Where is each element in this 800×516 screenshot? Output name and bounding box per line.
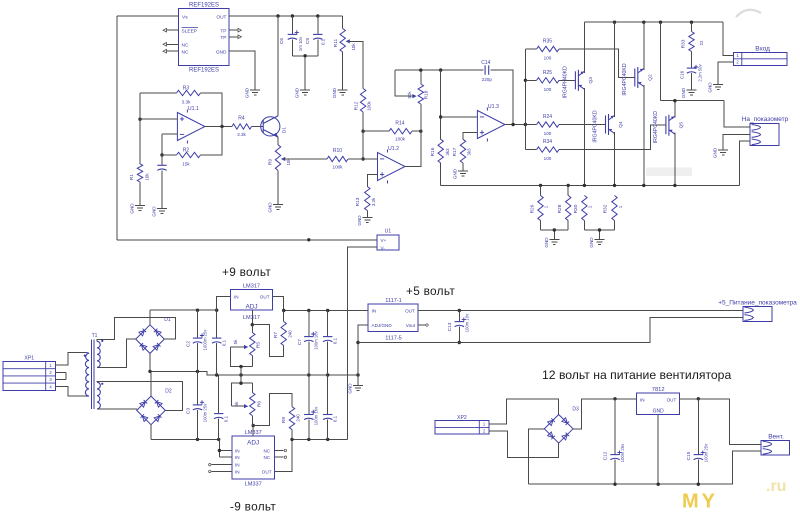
connector XP1 mains (3, 362, 55, 391)
svg-text:5k: 5k (233, 339, 238, 344)
svg-text:IN: IN (234, 294, 239, 299)
svg-text:0.1: 0.1 (221, 339, 226, 346)
resistor R12 100k (360, 89, 365, 113)
resistor R4 3.3k (232, 124, 252, 129)
wire R35 to Q2 gate (559, 49, 635, 78)
IC REF192ES U-ref (179, 8, 229, 65)
wire U1.1 + input (140, 118, 177, 120)
capacitor C2 1000m 25v (197, 310, 199, 338)
wire XP1 pin4 to primary (55, 387, 86, 396)
svg-text:R28: R28 (557, 204, 563, 213)
svg-text:GND: GND (348, 383, 353, 394)
capacitor C13 100m 10v (458, 311, 460, 322)
svg-text:GND: GND (713, 147, 718, 158)
resistor R13 3.3k (365, 187, 370, 211)
svg-text:ADJ: ADJ (245, 304, 257, 311)
wire R9 bottom to ground (277, 170, 279, 204)
svg-text:OUT: OUT (667, 397, 677, 402)
svg-text:Q5: Q5 (678, 122, 684, 129)
svg-text:IN: IN (235, 448, 240, 453)
resistor R33 22 snubber (691, 22, 693, 31)
wire Q5 collector branch (661, 22, 725, 118)
wire R25 to Q3 gate (559, 79, 575, 81)
capacitor 0.1 after C3 (218, 375, 220, 414)
svg-text:REF192ES: REF192ES (189, 67, 219, 73)
capacitor 0.1 beside C8 (327, 375, 329, 415)
svg-text:R30: R30 (573, 204, 579, 213)
svg-text:R26: R26 (529, 204, 535, 213)
pin stub TP2 (229, 36, 238, 38)
svg-text:R18: R18 (423, 90, 429, 99)
svg-text:GND: GND (332, 87, 337, 98)
svg-text:IN: IN (235, 463, 240, 468)
svg-text:Q3: Q3 (588, 77, 594, 84)
svg-text:D2: D2 (165, 388, 172, 394)
junction R10/U1.2 minus (361, 157, 364, 160)
svg-text:IN: IN (372, 309, 377, 314)
wire XP2 pin1 to D3 top (489, 399, 559, 424)
wire LM317 OUT to +9 rail (273, 296, 284, 310)
svg-text:1117-1: 1117-1 (385, 298, 402, 304)
svg-text:100m 25v: 100m 25v (202, 403, 207, 422)
ground Вход (713, 85, 723, 90)
junction Q5 collector branch (659, 21, 662, 24)
junction R5/R6 link (239, 373, 242, 376)
IGBT Q3 IRG4PH40KD (574, 71, 576, 89)
wire R11 wiper to R12 (348, 41, 363, 88)
svg-text:100k: 100k (367, 100, 372, 110)
svg-text:Q2: Q2 (647, 74, 653, 81)
wire Vs supply from +9 bus (117, 15, 179, 17)
wire gate bus vertical (524, 49, 526, 150)
wire R17 to ground (462, 163, 464, 171)
ground meter (718, 150, 728, 155)
wire -9 regulated rail (292, 438, 348, 440)
svg-text:NC: NC (264, 448, 271, 453)
svg-text:C9: C9 (305, 38, 311, 44)
svg-text:GND: GND (216, 49, 227, 55)
svg-text:2.2m 50v: 2.2m 50v (698, 63, 703, 81)
T1 primary phase dot (84, 355, 86, 357)
junction C13 top (458, 309, 461, 312)
potentiometer R5 5k (251, 325, 253, 333)
T1 secondary 1 (97, 341, 100, 367)
wire LM337 IN bracket (219, 439, 231, 457)
junction C15 top (697, 397, 700, 400)
junction Q5 emitter (673, 184, 676, 187)
svg-text:GND: GND (653, 409, 665, 415)
wire REF OUT 2.5V rail (229, 15, 343, 17)
junction Q4 collector (613, 21, 616, 24)
capacitor C12 100m 25v (614, 399, 616, 455)
svg-text:D1: D1 (282, 127, 288, 133)
svg-text:LM337: LM337 (245, 482, 262, 488)
wire fan ground rail (529, 451, 762, 484)
junction 7812 ground (657, 483, 660, 486)
wire R24 to Q4 gate (559, 124, 606, 126)
svg-text:1000m 25v: 1000m 25v (202, 329, 207, 351)
svg-text:GND: GND (544, 237, 549, 248)
svg-text:U1.1: U1.1 (188, 106, 199, 112)
capacitor C16 2.2m 50v (687, 67, 696, 69)
svg-text:100k: 100k (333, 165, 344, 170)
wire Вход pin2 to ground (718, 62, 733, 85)
resistor R34 100 (525, 149, 536, 151)
junction C2 bottom (196, 370, 199, 373)
junction LM337 ADJ node (252, 424, 255, 427)
svg-text:3.3k: 3.3k (237, 132, 246, 137)
capacitor C7 100m 16v (308, 311, 310, 337)
wire Q3 collector (583, 22, 585, 73)
wire U1.3 minus input (441, 116, 478, 118)
resistor R10 100k (327, 156, 348, 161)
resistor R30 1 (582, 196, 587, 221)
wire D1 plus to raw+ rail (149, 310, 151, 325)
T1 secondary 2 phase dot (101, 383, 103, 385)
junction 0.1 C7-side column (326, 373, 329, 376)
svg-text:.ru: .ru (766, 478, 786, 495)
bridge rectifier D1 (136, 325, 165, 354)
pin stub NC1 (167, 43, 179, 45)
ground C6/C9 (300, 90, 310, 95)
junction ADJ node (251, 323, 254, 326)
junction U1.3 minus input (439, 115, 442, 118)
junction Q2 collector (642, 21, 645, 24)
connector На показометр meter (750, 124, 779, 146)
svg-text:IN: IN (235, 455, 240, 460)
transistor D1 NPN (261, 117, 280, 136)
wire 7812 OUT to fan connector (680, 399, 762, 445)
wire +9 left bus vertical (116, 16, 118, 240)
junction ADJ/GND meter return (356, 341, 359, 344)
svg-text:22: 22 (699, 40, 704, 45)
resistor R28 1 (566, 196, 571, 221)
wire U1.2 output up to R14 node (405, 131, 421, 166)
svg-text:C12: C12 (603, 451, 609, 460)
resistor R26 1 (538, 196, 543, 221)
svg-text:U1: U1 (385, 229, 392, 235)
svg-text:IRG4PC40KD: IRG4PC40KD (622, 63, 628, 96)
wire Вход pin1 to load rail (723, 22, 733, 55)
svg-text:100: 100 (544, 131, 552, 136)
wire LM337 OUT to -9 rail (275, 439, 292, 471)
junction R18 top (419, 68, 422, 71)
svg-text:IRG4PC40KD: IRG4PC40KD (653, 111, 659, 144)
wire raw+ rail (150, 309, 217, 311)
svg-text:GND: GND (357, 215, 362, 226)
ground R30/R32 (595, 240, 605, 245)
regulator LM337 (232, 436, 275, 479)
svg-text:R3: R3 (183, 86, 190, 92)
svg-text:-9 вольт: -9 вольт (230, 499, 276, 513)
svg-text:+5 вольт: +5 вольт (406, 284, 455, 298)
svg-text:3.3k: 3.3k (371, 197, 376, 206)
wire XP2 pin2 to D3 bottom (489, 431, 559, 458)
wire raw- rail to LM337 IN (151, 438, 219, 440)
regulator LM317 (231, 289, 273, 310)
svg-text:ADJ: ADJ (247, 439, 259, 446)
junction C15 ground (697, 483, 700, 486)
svg-text:240: 240 (296, 414, 301, 422)
potentiometer R11 10k (342, 16, 344, 29)
potentiometer R6 5k (251, 383, 253, 392)
svg-text:IRG4PH40KD: IRG4PH40KD (563, 66, 569, 99)
wire 1117 ADJ/GND to ground node (358, 325, 368, 386)
junction U1.3 minus bus (439, 68, 442, 71)
svg-text:12 вольт на питание вентилятор: 12 вольт на питание вентилятора (542, 368, 731, 382)
ground R9 (273, 205, 283, 210)
svg-text:3k3: 3k3 (445, 148, 450, 156)
resistor R16 3k3 (438, 139, 443, 163)
op-amp U1.1 (177, 113, 205, 141)
svg-text:На_показометр: На_показометр (742, 116, 789, 123)
junction C7 top / V+ column (307, 309, 310, 312)
svg-text:5k: 5k (234, 401, 239, 406)
wire D1 minus to mid rail (149, 353, 151, 371)
pin stub LM337 NC1 (275, 450, 284, 452)
wire REF GND pin (229, 51, 255, 90)
resistor R8 240 (253, 393, 292, 425)
svg-text:100: 100 (544, 156, 552, 161)
wire R13 to ground (366, 211, 368, 218)
svg-text:C14: C14 (481, 60, 490, 66)
svg-text:R6: R6 (256, 401, 262, 407)
svg-text:Vout: Vout (406, 323, 416, 328)
svg-text:U1.3: U1.3 (488, 104, 499, 110)
junction gate bus R25 (524, 79, 527, 82)
T1 secondary 2 (97, 382, 100, 409)
junction Q5 collector node (673, 99, 676, 102)
svg-text:15k: 15k (182, 162, 190, 167)
wire meter pin1 from input plus (724, 101, 750, 128)
wire R9 wiper to R10 (284, 158, 328, 160)
junction output/feedback (220, 125, 223, 128)
wire integrator top rail to C14 (395, 69, 483, 71)
svg-text:Q4: Q4 (618, 121, 624, 128)
svg-text:R10: R10 (333, 148, 342, 154)
svg-text:R1: R1 (129, 174, 135, 180)
resistor R3 3.3k feedback (140, 92, 177, 94)
svg-text:R7: R7 (273, 332, 279, 338)
svg-text:100m 10v: 100m 10v (464, 313, 469, 332)
watermark gray blocks (646, 168, 692, 177)
wire feedback left vertical to R3 (139, 93, 141, 119)
connector Вент fan (761, 441, 790, 456)
wire U1.1 output to R4 (205, 126, 232, 128)
wire R34 to Q5 gate (559, 125, 666, 149)
regulator 7812 (637, 393, 680, 414)
wire D2 top to mid rail (150, 371, 152, 396)
svg-text:GND: GND (453, 168, 458, 179)
junction 0.1 top / LM317 IN (215, 309, 218, 312)
svg-text:0.1: 0.1 (223, 415, 228, 422)
svg-text:C16: C16 (679, 70, 684, 79)
pin stub LM337 NC2 (275, 456, 284, 458)
svg-text:1117-5: 1117-5 (385, 336, 402, 342)
svg-text:R9: R9 (267, 159, 273, 165)
wire LM317 IN elbow (217, 296, 231, 310)
bridge rectifier D3 (544, 415, 573, 444)
pin stub LM337 IN4 (212, 471, 232, 473)
junction R14/R18/U1.2 output (419, 130, 422, 133)
wire R26/R28 common ground (541, 230, 569, 240)
wire mid rail (0V) (150, 371, 358, 375)
ground C16 (687, 90, 697, 95)
wire meter supply return (358, 317, 743, 342)
wire R7 bottom to ADJ node (252, 325, 283, 357)
svg-text:7812: 7812 (652, 387, 665, 393)
IC U1 supply pins (377, 235, 399, 250)
wire XP1 pin1 to primary (55, 352, 86, 365)
junction R12/R14 (361, 130, 364, 133)
svg-text:SLEEP: SLEEP (182, 29, 197, 35)
wire U1.3 output to gate resistors (505, 124, 537, 126)
svg-text:R25: R25 (543, 70, 552, 76)
potentiometer R18 50k (420, 70, 422, 84)
pin stub SLEEP (167, 29, 179, 31)
wire XP1 pins 2-3 jumper (55, 372, 66, 379)
svg-text:0.1: 0.1 (332, 415, 337, 422)
svg-text:NC: NC (264, 455, 271, 460)
wire 7812 GND to fan ground rail (657, 414, 659, 484)
svg-text:MY: MY (682, 491, 718, 513)
wire Q3 emitter (583, 88, 585, 186)
svg-text:100k: 100k (395, 137, 406, 142)
svg-text:R17: R17 (452, 147, 458, 156)
svg-text:V+: V+ (381, 238, 387, 243)
connector XP2 (435, 421, 489, 435)
wire U1 V+ supply (117, 239, 377, 241)
junction D1/D2 mid (148, 370, 151, 373)
svg-text:GND: GND (295, 87, 300, 98)
ground R11 (338, 90, 348, 95)
wire LM337 ADJ pin (252, 426, 254, 437)
wire meter pin2 to ground (723, 135, 750, 150)
svg-text:100m 25v: 100m 25v (620, 443, 625, 462)
svg-text:IN: IN (235, 469, 240, 474)
junction - input / R2 / C1 (160, 153, 163, 156)
ground R1 (135, 206, 145, 211)
wire emitter to R9 (277, 137, 279, 145)
svg-text:TP: TP (220, 35, 226, 41)
resistor R7 240 (283, 311, 285, 322)
svg-text:OUT: OUT (405, 309, 415, 314)
wire D2 bottom to raw- rail (150, 425, 152, 440)
svg-text:XP1: XP1 (24, 355, 34, 361)
IGBT Q5 IRG4PC40KD (665, 116, 667, 134)
junction C2 top (196, 309, 199, 312)
junction LM337 IN (218, 449, 221, 452)
junction 0.1 bottom (215, 373, 218, 376)
svg-text:GND: GND (152, 206, 157, 217)
wire Q2 emitter (643, 85, 645, 185)
svg-text:OUT: OUT (262, 469, 272, 474)
wire C6/C9 common to ground (292, 56, 317, 90)
wire U1.2 + input to R13 (367, 174, 377, 186)
svg-text:C2: C2 (186, 341, 192, 347)
svg-text:GND: GND (268, 202, 273, 213)
capacitor C6 1m 10v (291, 16, 293, 34)
svg-text:R13: R13 (355, 197, 361, 206)
wire C14 right to U1.3 output (490, 70, 513, 124)
junction transistor collector on OUT rail (276, 14, 279, 17)
wire +9 rail (284, 310, 368, 312)
resistor R14 100k feedback (363, 130, 389, 132)
svg-text:C6: C6 (279, 38, 285, 44)
junction C7 column (307, 373, 310, 376)
svg-text:NC: NC (182, 42, 189, 48)
svg-text:100: 100 (544, 87, 552, 92)
wire Q2 collector (643, 22, 645, 70)
resistor R25 100 (525, 79, 536, 81)
wire sec1 bottom to D1 left corner (97, 339, 136, 367)
wire collector to 2.5V rail (277, 16, 279, 116)
junction + input / R1 / R3 feedback (138, 118, 141, 121)
IGBT Q2 IRG4PC40KD (634, 69, 636, 87)
capacitor 0.1 after C2 (216, 310, 218, 338)
svg-text:OUT: OUT (260, 294, 270, 299)
svg-text:R11: R11 (333, 38, 339, 47)
ground R13 (362, 218, 372, 223)
junction C14 feedback tap (511, 123, 514, 126)
wire sec2 top to D2 right corner (97, 382, 183, 411)
connector Вход input (734, 52, 787, 65)
svg-text:220p: 220p (482, 77, 493, 82)
junction C8 bottom (307, 438, 310, 441)
svg-text:+5_Питание_показометра: +5_Питание_показометра (718, 299, 797, 306)
svg-text:R8: R8 (281, 417, 287, 423)
junction C12 top (613, 397, 616, 400)
svg-text:R14: R14 (395, 121, 404, 127)
wire R14 node down to U1.2 minus node (362, 131, 364, 159)
svg-text:IN: IN (640, 397, 645, 402)
op-amp U1.3 (477, 111, 505, 139)
svg-text:R4: R4 (238, 116, 245, 122)
svg-text:C3: C3 (186, 408, 192, 414)
svg-text:100m 16v: 100m 16v (314, 330, 319, 349)
wire U1.3 plus input to R17 (463, 132, 477, 139)
svg-text:LM317: LM317 (243, 315, 260, 321)
ground C1 (157, 209, 167, 214)
capacitor C9 0.1 (317, 16, 319, 34)
resistor R17 3k3 (460, 139, 465, 163)
svg-text:1m 10v: 1m 10v (298, 36, 303, 51)
svg-text:GND: GND (708, 82, 713, 93)
wire +5 rail (418, 310, 743, 312)
junction R7 top (282, 309, 285, 312)
ground R26/R28 (549, 240, 559, 245)
regulator 1117 (368, 304, 418, 332)
svg-text:100m 25v: 100m 25v (703, 443, 708, 462)
svg-text:3k3: 3k3 (467, 148, 472, 156)
ground 1117 (353, 386, 363, 391)
junction C9 on OUT rail (316, 14, 319, 17)
svg-text:R34: R34 (543, 139, 552, 145)
svg-text:Вент.: Вент. (768, 434, 784, 441)
wire D3 plus to 7812 IN (573, 399, 637, 429)
junction Q4 emitter / R32 (613, 184, 616, 187)
junction R6 top link (239, 382, 242, 385)
svg-text:D3: D3 (572, 407, 579, 413)
svg-text:10k: 10k (351, 43, 356, 51)
wire R5 node to mid rail (240, 367, 242, 384)
junction C12 ground (613, 483, 616, 486)
junction C6 on OUT rail (291, 14, 294, 17)
wire load top rail (584, 21, 723, 23)
wire R10 to U1.2 minus (348, 158, 378, 160)
pin stub 1117 Vout (418, 324, 425, 326)
svg-text:U1.2: U1.2 (388, 146, 399, 152)
